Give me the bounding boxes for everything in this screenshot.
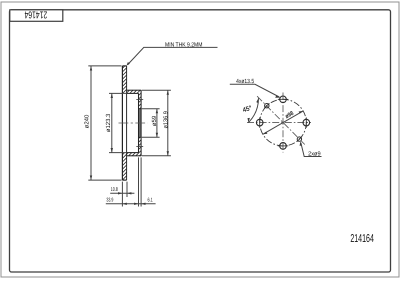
leader 2xø9	[301, 143, 322, 157]
dimension ø123.3	[109, 93, 126, 152]
hatch: disc plate bottom	[122, 153, 126, 180]
svg-text:2xø9: 2xø9	[308, 151, 321, 158]
dimension ø98 diagonal	[263, 111, 303, 134]
bore edges	[139, 109, 142, 138]
dimension 6.1	[140, 157, 142, 206]
vertical centerline	[282, 93, 284, 153]
svg-text:4xø13.5: 4xø13.5	[236, 78, 255, 85]
bolt circle ø98	[260, 99, 307, 146]
diagonal centerline	[257, 96, 305, 144]
bolt hole W	[256, 117, 263, 127]
hub bore fill	[139, 109, 142, 138]
bolt hole tick bottom	[136, 146, 143, 148]
hatch: hub wall lower	[139, 137, 142, 152]
dimension ø240	[88, 66, 121, 180]
bolt hole E	[303, 117, 310, 127]
bolt hole N	[278, 96, 288, 103]
hatch: hub wall upper	[139, 93, 142, 108]
svg-text:MIN THK 9.2MM: MIN THK 9.2MM	[165, 41, 202, 48]
svg-text:214164: 214164	[24, 9, 47, 20]
bolt hole S	[278, 143, 288, 150]
title box top-left	[10, 9, 63, 22]
dimension ø136.9	[142, 90, 171, 156]
svg-text:33.9: 33.9	[106, 198, 113, 204]
svg-text:10.8: 10.8	[111, 187, 118, 193]
leader 4xø13.5	[230, 84, 279, 97]
leader MIN THK	[128, 47, 218, 64]
hatch: disc plate top	[122, 66, 126, 94]
svg-text:ø59: ø59	[151, 115, 158, 126]
bolt hole tick top	[136, 98, 143, 100]
section centerline	[119, 122, 148, 124]
45 degree arc	[248, 98, 258, 123]
hatch: hat flange top	[127, 90, 142, 93]
disc plate outline	[122, 66, 126, 180]
svg-text:ø136.9: ø136.9	[162, 111, 169, 129]
small hole NW	[264, 103, 269, 108]
dimension 33.9	[106, 157, 156, 206]
small hole SE	[297, 137, 302, 142]
hat outline	[127, 90, 142, 156]
dimension 10.8	[110, 182, 134, 207]
hatch: hat flange bottom	[127, 153, 142, 156]
svg-text:6.1: 6.1	[147, 198, 152, 204]
svg-text:214164: 214164	[350, 233, 374, 245]
svg-text:ø123.3: ø123.3	[105, 113, 112, 132]
dimension ø59	[142, 109, 160, 138]
svg-text:ø240: ø240	[83, 114, 90, 128]
horizontal centerline	[247, 122, 311, 124]
